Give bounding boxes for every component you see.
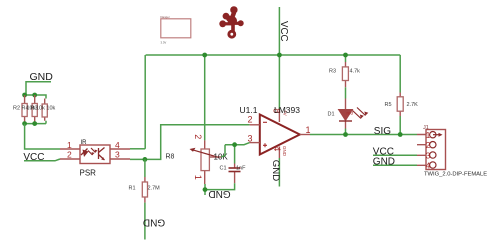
- svg-text:1: 1: [306, 125, 311, 135]
- wiper stub: [210, 156, 222, 158]
- svg-text:VCC: VCC: [278, 21, 289, 41]
- svg-text:1: 1: [193, 175, 203, 180]
- light arrows: [88, 148, 96, 155]
- svg-text:3: 3: [248, 134, 253, 144]
- resistor R4 (middle of parallel bank): [32, 95, 37, 124]
- svg-text:PSR: PSR: [80, 169, 97, 178]
- svg-text:R8: R8: [166, 153, 175, 160]
- wire: R1 to GND: [144, 203, 146, 240]
- svg-text:R1: R1: [129, 186, 136, 192]
- svg-text:3.3V: 3.3V: [161, 41, 167, 45]
- wire: resistor network top rail: [25, 95, 46, 99]
- wire: network to PSR pin1: [25, 124, 60, 149]
- wire: PSR pin4 to opamp pin2: [130, 148, 145, 150]
- svg-text:4: 4: [426, 160, 431, 170]
- wire: pot pin2 drop: [204, 55, 206, 140]
- wire: R3 to D1: [345, 87, 347, 98]
- svg-text:J1: J1: [423, 125, 429, 131]
- LED inside: [83, 150, 89, 158]
- wire: SIG line opamp out to J1: [310, 134, 417, 136]
- junction on bus at opamp pin8: [277, 53, 282, 58]
- svg-text:2: 2: [67, 150, 72, 160]
- pin1 arrow: [433, 134, 440, 136]
- pin3 stub: [250, 142, 260, 144]
- resistor R3b (right of parallel bank): [42, 99, 47, 121]
- svg-text:SIG: SIG: [374, 126, 391, 137]
- frame/box drawing top-left: [161, 15, 191, 45]
- junction top rail b: [32, 93, 37, 98]
- svg-text:2: 2: [248, 115, 253, 125]
- pin stubs right: [110, 149, 130, 159]
- resistor R2 (left of parallel bank): [22, 95, 27, 124]
- body: [426, 130, 446, 170]
- pin stubs: [417, 135, 426, 166]
- svg-text:2.7M: 2.7M: [148, 186, 161, 192]
- resistor R3: [329, 62, 360, 87]
- svg-text:1: 1: [67, 140, 72, 150]
- wire: C1 bottom to pot gnd: [205, 183, 235, 189]
- pin circles: [430, 132, 436, 138]
- pin1 stub: [300, 134, 310, 136]
- svg-text:2.7K: 2.7K: [407, 102, 419, 108]
- svg-text:R5: R5: [385, 102, 392, 108]
- connector J1 TWIG_2.0-DIP-FEMALE: [417, 125, 487, 178]
- potentiometer R8 10K: [190, 134, 229, 184]
- pin4 stub: [278, 147, 280, 159]
- junction bottom rail b: [32, 121, 37, 126]
- junction top rail a: [22, 93, 27, 98]
- wire: opamp pin8 drop: [278, 55, 280, 110]
- logo blob: [219, 6, 243, 37]
- svg-text:4.7k: 4.7k: [350, 69, 361, 75]
- svg-text:TWIG_2.0-DIP-FEMALE: TWIG_2.0-DIP-FEMALE: [424, 172, 487, 178]
- svg-text:GND: GND: [208, 188, 230, 199]
- op-amp U1.1 LM393: [240, 105, 311, 158]
- svg-text:1: 1: [426, 130, 431, 140]
- wire: node down to C1 top: [234, 145, 236, 164]
- svg-text:R3: R3: [329, 69, 336, 75]
- wire: opamp pin4 to GND: [278, 158, 280, 187]
- junction bottom rail a: [22, 121, 27, 126]
- junction SIG at R5: [398, 132, 403, 137]
- wiper arrow: [193, 150, 220, 158]
- wire: resistor network bottom rail: [25, 121, 46, 124]
- svg-text:R2: R2: [13, 106, 20, 112]
- svg-text:2: 2: [426, 140, 431, 150]
- svg-text:D1: D1: [328, 112, 335, 118]
- wire: PSR pin3 to R8 node: [130, 125, 250, 160]
- wire: wiper to pin3 node: [221, 145, 225, 157]
- svg-text:IR: IR: [81, 140, 88, 146]
- svg-text:10K: 10K: [214, 153, 229, 162]
- svg-text:U1.1: U1.1: [240, 105, 258, 115]
- minus mark: [263, 121, 267, 123]
- wire: bus drop to R8 node: [144, 55, 146, 149]
- wire: VCC vertical above bus: [278, 7, 280, 55]
- svg-text:red: red: [347, 111, 354, 116]
- wire: node to C1: [225, 143, 250, 145]
- svg-text:GND: GND: [270, 160, 281, 181]
- svg-text:2: 2: [193, 134, 203, 139]
- wire: GND to J1 pin4: [373, 164, 417, 166]
- wire: pot pin1 to gnd node: [204, 184, 206, 195]
- optocoupler PSR: [60, 140, 130, 178]
- junction pot gnd: [203, 187, 208, 192]
- junction SIG at D1: [343, 132, 348, 137]
- wire: R3 drop from bus: [345, 55, 347, 62]
- svg-text:4: 4: [115, 140, 120, 150]
- body: [80, 145, 110, 164]
- wire: D1 to SIG line: [345, 129, 347, 135]
- svg-text:1nF: 1nF: [236, 166, 246, 172]
- wire: bus corner down to R5: [399, 55, 401, 93]
- svg-text:3: 3: [115, 150, 120, 160]
- pin2 stub: [250, 124, 260, 126]
- pin8 stub: [278, 110, 280, 122]
- wire: R5 to SIG line: [399, 116, 401, 135]
- emission arrows: [353, 108, 366, 119]
- wire: VCC top bus: [146, 54, 401, 56]
- junction on bus at pot column: [202, 53, 207, 58]
- wire: VCC to J1 pin3: [373, 154, 417, 156]
- junction R8 node: [143, 157, 148, 162]
- resistor R1: [129, 159, 161, 202]
- wire: VCC to PSR pin2: [24, 159, 60, 161]
- LED D1: [328, 99, 369, 129]
- svg-text:GND: GND: [282, 146, 287, 157]
- resistor R5: [385, 93, 419, 117]
- svg-text:C1: C1: [220, 166, 227, 172]
- junction on bus at R3: [343, 53, 348, 58]
- pin stubs left: [60, 149, 80, 159]
- svg-text:10k 10k: 10k 10k: [36, 106, 56, 112]
- wire: GND label stub: [26, 82, 51, 95]
- junction pin3 node: [232, 142, 237, 147]
- svg-text:GND: GND: [143, 216, 165, 227]
- svg-text:LM393: LM393: [274, 105, 300, 115]
- plus mark: [263, 143, 267, 147]
- svg-text:3: 3: [426, 150, 431, 160]
- svg-text:4: 4: [272, 146, 282, 151]
- capacitor C1: [220, 164, 247, 184]
- phototransistor inside: [99, 148, 105, 161]
